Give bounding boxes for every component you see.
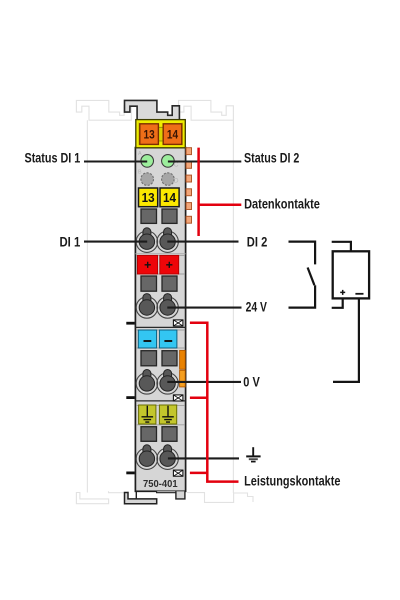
pushbutton row4 right xyxy=(162,427,177,442)
label 13 yellow xyxy=(139,188,158,207)
divider row3/row4 xyxy=(135,400,185,402)
status LED A xyxy=(141,155,154,168)
earth terminal right xyxy=(159,405,176,424)
right jumper contact symbol 3 xyxy=(173,470,183,476)
svg-text:C: C xyxy=(174,162,179,169)
yellow block inner frame xyxy=(138,123,140,146)
wire status DI2 xyxy=(168,160,241,162)
ground symbol xyxy=(246,447,260,461)
pushbutton row2 right xyxy=(162,276,177,291)
svg-text:14: 14 xyxy=(163,190,177,205)
top mounting clip xyxy=(125,100,180,120)
LED D xyxy=(162,173,175,186)
svg-text:DI 1: DI 1 xyxy=(60,234,81,249)
switch S xyxy=(289,242,316,308)
battery box xyxy=(333,251,369,298)
neighbor module outline right 1 xyxy=(179,100,254,502)
svg-text:24 V: 24 V xyxy=(246,299,268,314)
body left edge extension xyxy=(135,491,137,499)
svg-text:13: 13 xyxy=(144,127,156,141)
terminal row1 xyxy=(136,228,178,253)
blue terminal - left xyxy=(138,330,156,348)
wire DI1 xyxy=(84,241,147,243)
wire DI2 xyxy=(167,241,238,243)
battery supply wires xyxy=(332,242,359,382)
red terminal + left xyxy=(137,255,157,274)
terminal row margin lines xyxy=(136,254,185,256)
svg-text:A: A xyxy=(138,151,142,157)
divider row2/row3 xyxy=(135,326,185,328)
svg-text:DI 2: DI 2 xyxy=(247,234,268,249)
terminal row4 xyxy=(136,445,178,470)
status LED C xyxy=(162,155,175,168)
pushbutton row3 left xyxy=(141,351,157,366)
divider row1/row2 xyxy=(135,253,185,255)
svg-text:Status DI 2: Status DI 2 xyxy=(244,151,300,166)
pushbutton row1 left xyxy=(141,209,157,223)
right jumper contact symbol 1 xyxy=(173,320,183,326)
power jumper contact orange bottom xyxy=(180,370,186,387)
svg-text:B: B xyxy=(138,169,142,175)
neighbor module outline left 1 xyxy=(76,100,131,503)
connector bridge xyxy=(158,127,163,141)
svg-text:Leistungskontakte: Leistungskontakte xyxy=(244,473,341,488)
orange contact 13 xyxy=(140,124,159,145)
orange contact 14 xyxy=(163,124,182,145)
red bracket Datenkontakte xyxy=(199,148,242,236)
red terminal + right xyxy=(160,255,179,274)
earth terminal left xyxy=(139,405,156,424)
pushbutton row3 right xyxy=(162,351,177,366)
red bracket Leistungskontakte xyxy=(190,323,239,482)
wire 0V xyxy=(167,381,241,383)
power jumper contact orange top xyxy=(180,350,186,369)
pushbutton row2 left xyxy=(141,276,157,291)
battery plus xyxy=(340,290,345,295)
blue terminal - right xyxy=(159,330,177,348)
bottom right tab xyxy=(176,491,185,499)
svg-text:14: 14 xyxy=(167,127,179,141)
wire 24V xyxy=(167,307,241,309)
LED B xyxy=(141,173,154,186)
right jumper contact symbol 2 xyxy=(173,395,183,401)
left power jumper mark 2 xyxy=(126,396,134,399)
module body 750-401 xyxy=(135,148,185,492)
label 14 yellow xyxy=(160,188,179,207)
body bottom step xyxy=(157,491,176,492)
left power jumper mark 1 xyxy=(126,322,134,325)
bottom left foot xyxy=(125,493,157,504)
svg-text:D: D xyxy=(174,178,179,185)
svg-text:13: 13 xyxy=(142,190,155,205)
wire earth xyxy=(168,457,239,459)
svg-text:0 V: 0 V xyxy=(243,374,260,389)
data contacts xyxy=(186,148,191,224)
left power jumper mark 3 xyxy=(126,472,134,475)
terminal row2 xyxy=(136,294,178,319)
terminal row3 xyxy=(136,370,178,395)
pushbutton row1 right xyxy=(162,209,177,223)
connector yellow block xyxy=(136,120,186,148)
svg-text:750-401: 750-401 xyxy=(143,479,178,490)
svg-text:Status DI 1: Status DI 1 xyxy=(25,151,81,166)
battery minus xyxy=(355,293,363,295)
pushbutton row4 left xyxy=(141,427,157,442)
wire status DI1 xyxy=(84,160,147,162)
svg-text:Datenkontakte: Datenkontakte xyxy=(244,197,320,212)
